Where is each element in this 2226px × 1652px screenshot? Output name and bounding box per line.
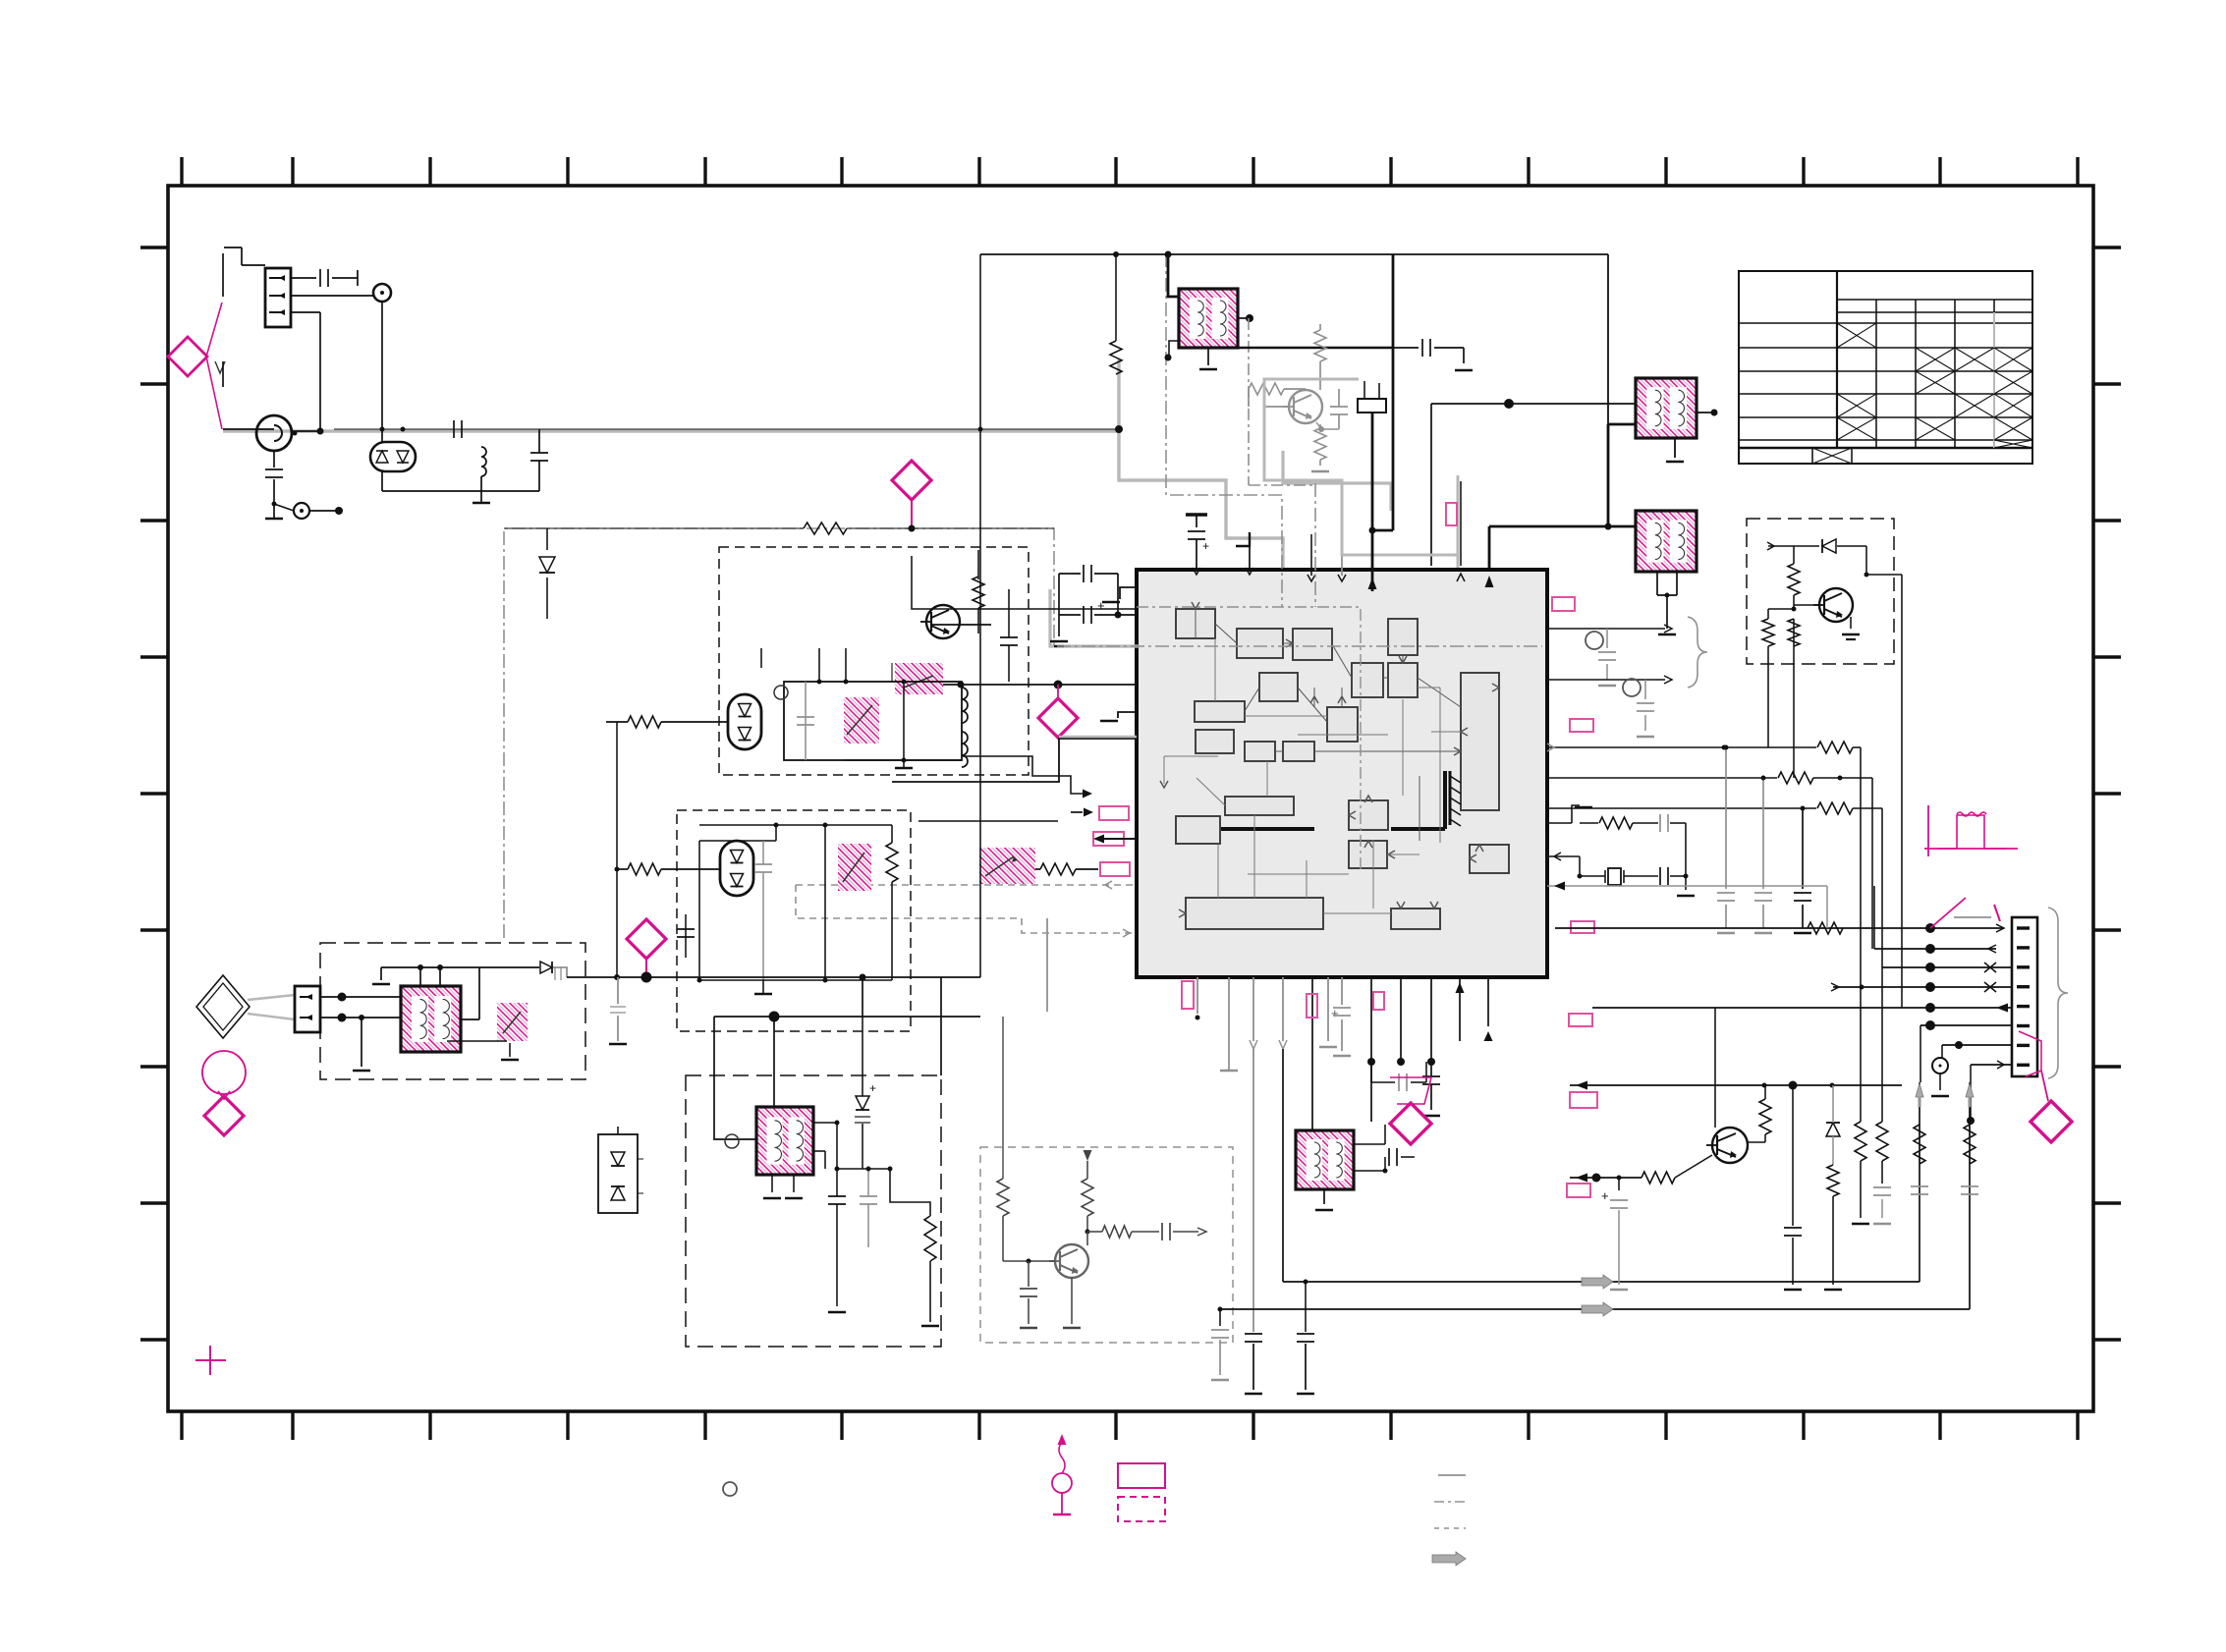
svg-text:+: + bbox=[1097, 598, 1105, 613]
svg-text:+: + bbox=[1601, 1188, 1609, 1203]
svg-text:+: + bbox=[1202, 539, 1209, 553]
svg-text:+: + bbox=[869, 1081, 876, 1095]
